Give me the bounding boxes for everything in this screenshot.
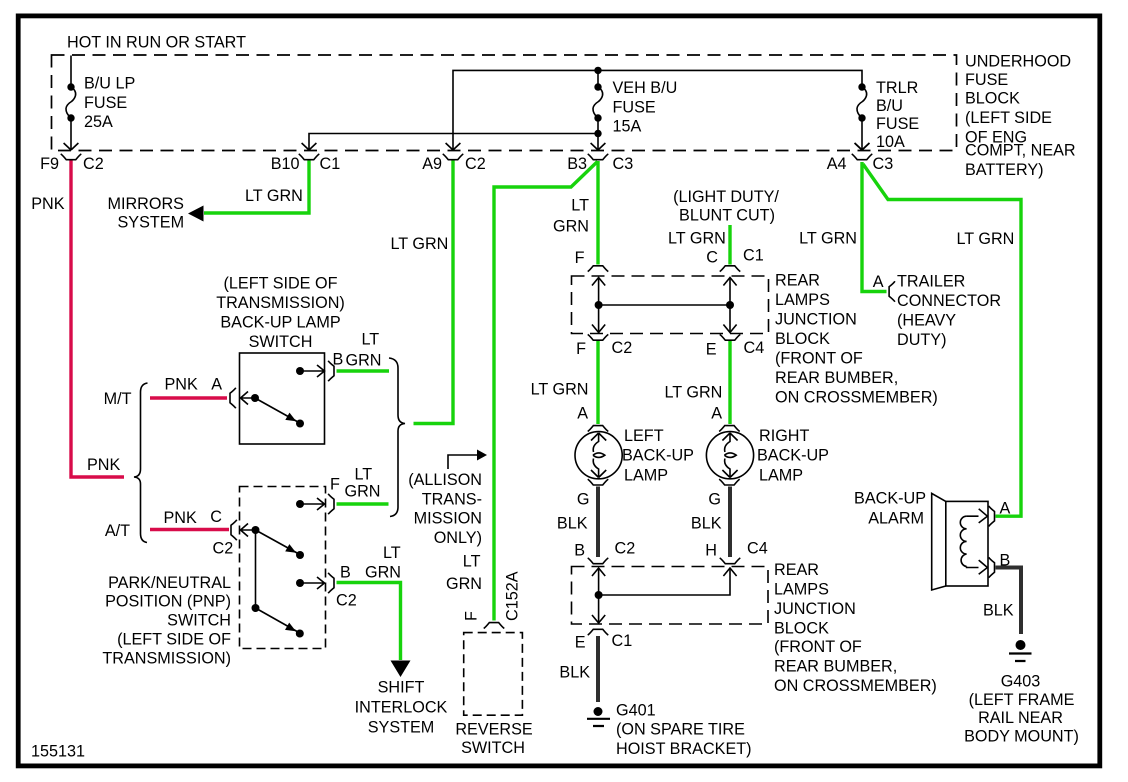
- svg-text:CONNECTOR: CONNECTOR: [897, 292, 1001, 310]
- svg-text:C: C: [706, 249, 718, 267]
- svg-text:(ALLISON: (ALLISON: [408, 471, 482, 489]
- svg-text:FUSE: FUSE: [613, 99, 656, 117]
- svg-text:PNK: PNK: [164, 509, 197, 527]
- svg-text:SYSTEM: SYSTEM: [368, 719, 435, 737]
- svg-text:BLK: BLK: [559, 664, 590, 682]
- svg-text:TRLR: TRLR: [876, 79, 918, 97]
- svg-text:ONLY): ONLY): [434, 529, 482, 547]
- svg-text:LT: LT: [571, 197, 589, 215]
- svg-text:BLOCK: BLOCK: [774, 620, 829, 638]
- svg-text:(FRONT OF: (FRONT OF: [774, 638, 862, 656]
- svg-text:C2: C2: [213, 540, 234, 558]
- svg-text:LT GRN: LT GRN: [799, 230, 857, 248]
- svg-text:LAMPS: LAMPS: [774, 581, 829, 599]
- svg-text:REAR BUMBER,: REAR BUMBER,: [775, 369, 898, 387]
- svg-text:JUNCTION: JUNCTION: [774, 600, 856, 618]
- svg-text:(LEFT SIDE: (LEFT SIDE: [965, 109, 1052, 127]
- svg-text:A/T: A/T: [105, 522, 130, 540]
- svg-text:C1: C1: [612, 632, 633, 650]
- svg-text:E: E: [575, 634, 586, 652]
- svg-text:BACK-UP: BACK-UP: [854, 490, 926, 508]
- svg-text:INTERLOCK: INTERLOCK: [355, 699, 448, 717]
- svg-text:B: B: [340, 564, 351, 582]
- svg-text:B/U: B/U: [876, 97, 903, 115]
- svg-text:C4: C4: [744, 339, 765, 357]
- svg-text:GRN: GRN: [365, 564, 401, 582]
- svg-text:B/U LP: B/U LP: [84, 75, 135, 93]
- svg-text:JUNCTION: JUNCTION: [775, 311, 857, 329]
- svg-text:C2: C2: [83, 155, 104, 173]
- svg-text:TRANS-: TRANS-: [422, 491, 482, 509]
- svg-text:E: E: [706, 341, 717, 359]
- svg-text:BLOCK: BLOCK: [965, 90, 1020, 108]
- svg-text:HOIST BRACKET): HOIST BRACKET): [616, 740, 752, 758]
- svg-text:B: B: [333, 351, 344, 369]
- svg-text:F: F: [463, 611, 481, 621]
- svg-text:BLOCK: BLOCK: [775, 330, 830, 348]
- svg-text:LT GRN: LT GRN: [245, 187, 303, 205]
- svg-text:POSITION (PNP): POSITION (PNP): [105, 593, 231, 611]
- svg-text:ALARM: ALARM: [868, 510, 924, 528]
- svg-text:BLK: BLK: [557, 515, 588, 533]
- svg-text:A: A: [711, 405, 722, 423]
- svg-text:LT GRN: LT GRN: [665, 384, 723, 402]
- svg-text:LT: LT: [463, 553, 481, 571]
- svg-text:B: B: [574, 542, 585, 560]
- svg-text:SWITCH: SWITCH: [461, 739, 525, 757]
- svg-text:DUTY): DUTY): [897, 331, 946, 349]
- svg-text:SWITCH: SWITCH: [249, 333, 313, 351]
- svg-text:PARK/NEUTRAL: PARK/NEUTRAL: [108, 574, 231, 592]
- svg-text:SWITCH: SWITCH: [167, 612, 231, 630]
- svg-text:RAIL NEAR: RAIL NEAR: [978, 709, 1063, 727]
- svg-text:BLK: BLK: [691, 515, 722, 533]
- svg-text:LAMP: LAMP: [759, 467, 803, 485]
- svg-text:COMPT, NEAR: COMPT, NEAR: [965, 142, 1076, 160]
- svg-text:TRAILER: TRAILER: [897, 273, 965, 291]
- svg-text:10A: 10A: [876, 133, 905, 151]
- svg-text:LT: LT: [355, 466, 373, 484]
- svg-text:25A: 25A: [84, 113, 113, 131]
- svg-text:H: H: [705, 542, 717, 560]
- svg-text:VEH B/U: VEH B/U: [613, 79, 678, 97]
- svg-text:FUSE: FUSE: [876, 115, 919, 133]
- svg-text:ON CROSSMEMBER): ON CROSSMEMBER): [774, 677, 937, 695]
- svg-text:G401: G401: [616, 702, 656, 720]
- svg-text:(LEFT SIDE OF: (LEFT SIDE OF: [224, 275, 338, 293]
- svg-text:LAMPS: LAMPS: [775, 291, 830, 309]
- svg-text:REAR: REAR: [774, 561, 819, 579]
- svg-text:A4: A4: [827, 155, 847, 173]
- svg-text:PNK: PNK: [165, 376, 198, 394]
- svg-text:C2: C2: [612, 339, 633, 357]
- svg-text:LT GRN: LT GRN: [391, 235, 449, 253]
- svg-text:TRANSMISSION): TRANSMISSION): [216, 294, 345, 312]
- svg-text:GRN: GRN: [553, 218, 589, 236]
- svg-text:BLUNT CUT): BLUNT CUT): [679, 207, 775, 225]
- svg-text:REAR: REAR: [775, 272, 820, 290]
- svg-text:G: G: [577, 491, 590, 509]
- svg-text:LAMP: LAMP: [624, 467, 668, 485]
- svg-text:A9: A9: [422, 155, 442, 173]
- svg-text:MISSION: MISSION: [414, 510, 482, 528]
- svg-text:(LIGHT DUTY/: (LIGHT DUTY/: [673, 188, 779, 206]
- svg-text:REAR BUMBER,: REAR BUMBER,: [774, 658, 897, 676]
- svg-text:F9: F9: [40, 155, 59, 173]
- svg-text:A: A: [873, 273, 884, 291]
- svg-text:SYSTEM: SYSTEM: [118, 214, 185, 232]
- svg-text:C1: C1: [743, 247, 764, 265]
- svg-text:BACK-UP: BACK-UP: [622, 447, 694, 465]
- svg-text:A: A: [577, 405, 588, 423]
- svg-text:C2: C2: [615, 540, 636, 558]
- svg-text:B10: B10: [271, 155, 300, 173]
- svg-text:UNDERHOOD: UNDERHOOD: [965, 53, 1071, 71]
- svg-text:FUSE: FUSE: [84, 94, 127, 112]
- svg-text:BLK: BLK: [983, 602, 1014, 620]
- svg-text:A: A: [211, 376, 222, 394]
- svg-text:(LEFT SIDE OF: (LEFT SIDE OF: [117, 631, 231, 649]
- svg-text:C4: C4: [747, 540, 768, 558]
- svg-text:F: F: [330, 476, 340, 494]
- svg-text:M/T: M/T: [104, 390, 132, 408]
- svg-text:G: G: [708, 491, 721, 509]
- svg-text:REVERSE: REVERSE: [455, 721, 533, 739]
- svg-text:GRN: GRN: [346, 352, 382, 370]
- svg-text:C2: C2: [336, 592, 357, 610]
- svg-text:C3: C3: [613, 155, 634, 173]
- svg-text:ON CROSSMEMBER): ON CROSSMEMBER): [775, 389, 938, 407]
- svg-text:(LEFT FRAME: (LEFT FRAME: [969, 691, 1075, 709]
- svg-text:15A: 15A: [613, 118, 642, 136]
- svg-text:LT: LT: [362, 331, 380, 349]
- svg-text:LEFT: LEFT: [624, 427, 664, 445]
- svg-text:C2: C2: [465, 155, 486, 173]
- svg-text:C3: C3: [873, 155, 894, 173]
- svg-text:MIRRORS: MIRRORS: [108, 195, 185, 213]
- svg-text:GRN: GRN: [446, 575, 482, 593]
- svg-text:(HEAVY: (HEAVY: [897, 312, 956, 330]
- svg-text:C: C: [210, 508, 222, 526]
- svg-text:155131: 155131: [31, 743, 85, 761]
- svg-text:PNK: PNK: [31, 195, 64, 213]
- svg-text:LT: LT: [383, 544, 401, 562]
- svg-text:A: A: [1000, 500, 1011, 518]
- svg-text:B3: B3: [567, 155, 587, 173]
- svg-text:C152A: C152A: [504, 571, 522, 621]
- svg-text:(FRONT OF: (FRONT OF: [775, 350, 863, 368]
- svg-text:BODY MOUNT): BODY MOUNT): [964, 728, 1079, 746]
- svg-text:RIGHT: RIGHT: [759, 427, 809, 445]
- svg-text:F: F: [575, 249, 585, 267]
- svg-text:G403: G403: [1001, 673, 1041, 691]
- svg-text:LT GRN: LT GRN: [957, 230, 1015, 248]
- svg-text:(ON SPARE TIRE: (ON SPARE TIRE: [616, 721, 745, 739]
- svg-text:BACK-UP LAMP: BACK-UP LAMP: [220, 314, 340, 332]
- svg-text:FUSE: FUSE: [965, 71, 1008, 89]
- svg-text:C1: C1: [320, 155, 341, 173]
- svg-text:SHIFT: SHIFT: [378, 679, 425, 697]
- svg-text:BATTERY): BATTERY): [965, 161, 1044, 179]
- svg-text:GRN: GRN: [345, 483, 381, 501]
- svg-text:TRANSMISSION): TRANSMISSION): [102, 650, 231, 668]
- svg-text:F: F: [576, 340, 586, 358]
- svg-text:LT GRN: LT GRN: [531, 381, 589, 399]
- svg-text:HOT IN RUN OR START: HOT IN RUN OR START: [67, 34, 246, 52]
- svg-text:BACK-UP: BACK-UP: [757, 447, 829, 465]
- svg-text:LT GRN: LT GRN: [668, 230, 726, 248]
- svg-text:PNK: PNK: [87, 456, 120, 474]
